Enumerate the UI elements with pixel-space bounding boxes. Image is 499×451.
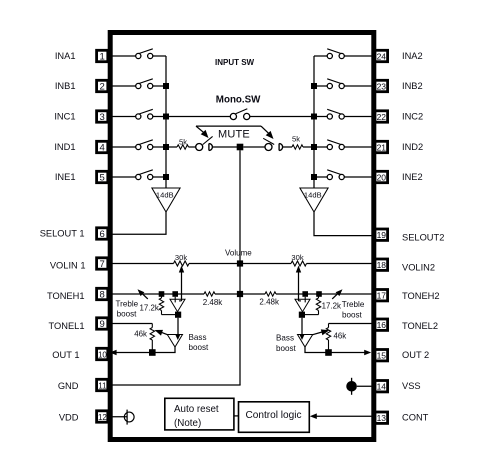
svg-text:2: 2 xyxy=(100,81,105,92)
svg-text:24: 24 xyxy=(377,51,387,61)
svg-text:10: 10 xyxy=(98,350,107,359)
wire stub + input treble left xyxy=(174,297,176,303)
wire 14dB left output to pin6 xyxy=(108,212,166,234)
junction left bus row3 xyxy=(163,114,169,120)
svg-text:boost: boost xyxy=(189,343,210,352)
svg-text:Mono.SW: Mono.SW xyxy=(216,95,261,106)
svg-text:2.48k: 2.48k xyxy=(259,298,280,307)
junction 46k bottom right xyxy=(325,349,332,356)
svg-text:TONEH1: TONEH1 xyxy=(47,291,85,301)
junction right bus row22 xyxy=(311,114,317,120)
wire mute switch left to center xyxy=(212,146,237,148)
svg-text:46k: 46k xyxy=(334,331,347,340)
svg-text:TONEH2: TONEH2 xyxy=(402,291,440,301)
svg-text:INE1: INE1 xyxy=(55,172,76,182)
arrow to pin15 xyxy=(364,350,371,355)
wire 5k to mute switch left xyxy=(189,146,196,148)
svg-text:7: 7 xyxy=(100,259,105,270)
switch Mono.SW xyxy=(166,109,314,120)
svg-text:23: 23 xyxy=(377,81,387,91)
svg-text:OUT 2: OUT 2 xyxy=(402,350,429,360)
wire Auto reset to Control logic xyxy=(234,415,239,417)
wire 17.2k to treble output right xyxy=(304,314,319,316)
junction left bus row5 xyxy=(163,174,169,180)
wire pin22 to switch SW-C2 xyxy=(344,116,373,118)
wire pin9 to 46k left xyxy=(108,323,152,325)
svg-text:11: 11 xyxy=(98,381,107,390)
svg-text:INA2: INA2 xyxy=(402,51,423,61)
svg-text:22: 22 xyxy=(377,112,387,122)
pin 3 box xyxy=(97,111,108,122)
wire SW-A1 to left bus xyxy=(153,55,166,57)
wire pin20 to switch SW-E2 xyxy=(344,176,373,178)
svg-text:14dB: 14dB xyxy=(156,190,174,199)
pin 4 box xyxy=(97,141,108,152)
svg-text:4: 4 xyxy=(100,142,105,153)
svg-text:INB1: INB1 xyxy=(55,81,76,91)
svg-text:17.2k: 17.2k xyxy=(322,302,341,311)
pin 23 box xyxy=(375,80,388,91)
wire center to mute switch right xyxy=(243,146,265,148)
wire treble output down left xyxy=(177,318,179,334)
wire pin8 tone row left xyxy=(108,293,204,295)
svg-text:30k: 30k xyxy=(291,253,303,262)
pin 10 box xyxy=(97,348,108,359)
bass wiper arrow left xyxy=(161,332,168,335)
svg-text:14dB: 14dB xyxy=(304,190,322,199)
junction tone row left A xyxy=(159,291,165,297)
resistor 30k right xyxy=(291,261,307,266)
svg-text:boost: boost xyxy=(342,310,363,319)
svg-text:17: 17 xyxy=(377,291,387,301)
wire volume row to pin18 xyxy=(307,263,374,265)
IC body U1 xyxy=(110,33,374,440)
svg-text:5k: 5k xyxy=(292,134,300,143)
wire SW-C2 to right bus xyxy=(314,116,327,118)
pin 9 box xyxy=(97,318,108,329)
pin 12 box xyxy=(97,411,108,422)
junction left bus row4 xyxy=(163,144,169,150)
resistor 17.2k right xyxy=(318,294,320,298)
svg-text:15: 15 xyxy=(377,351,387,361)
wire volume row middle xyxy=(189,263,291,265)
svg-text:18: 18 xyxy=(377,260,387,270)
volume wiper arrow right xyxy=(298,268,300,301)
wire pin21 to switch SW-D2 xyxy=(344,146,373,148)
pin 21 box xyxy=(375,141,388,152)
pin 18 box xyxy=(375,259,388,270)
resistor 2.48k right xyxy=(265,292,276,296)
volume wiper arrow left xyxy=(181,268,183,301)
arrow to pin10 xyxy=(110,350,117,355)
svg-text:17.2k: 17.2k xyxy=(139,304,158,313)
svg-text:SELOUT 1: SELOUT 1 xyxy=(40,229,85,239)
block Auto reset xyxy=(165,398,234,430)
resistor 5k right xyxy=(292,145,303,149)
svg-text:GND: GND xyxy=(58,381,79,391)
resistor 46k left xyxy=(151,324,153,328)
junction right bus row23 xyxy=(311,83,317,89)
switch MUTE left xyxy=(196,144,203,151)
switch SW-C2 xyxy=(339,114,344,119)
wire pin13 to Control logic xyxy=(314,415,374,417)
wire 5k right to right bus xyxy=(303,146,314,148)
treble wiper arrow right xyxy=(332,292,340,299)
svg-text:21: 21 xyxy=(377,142,387,152)
switch SW-B1 xyxy=(136,83,141,88)
pin 16 box xyxy=(375,319,388,330)
svg-text:VSS: VSS xyxy=(402,381,421,391)
switch SW-C1 xyxy=(136,114,141,119)
wire stub + input treble right xyxy=(304,297,306,303)
pin 24 box xyxy=(375,50,388,61)
svg-text:INC2: INC2 xyxy=(402,112,423,122)
wire pin7 volume row left xyxy=(108,263,173,265)
wire pin24 to switch SW-A2 xyxy=(344,55,373,57)
junction tone center xyxy=(237,291,243,297)
pin 8 box xyxy=(97,288,108,299)
svg-text:MUTE: MUTE xyxy=(218,129,250,141)
switch SW-E2 xyxy=(339,174,344,179)
svg-text:Auto reset: Auto reset xyxy=(174,404,219,415)
wire pin12 to VDD symbol xyxy=(108,416,127,418)
svg-text:INC1: INC1 xyxy=(54,112,75,122)
svg-text:INB2: INB2 xyxy=(402,81,423,91)
svg-text:boost: boost xyxy=(276,344,297,353)
wire bass output left xyxy=(174,347,176,353)
svg-text:16: 16 xyxy=(377,320,387,330)
pin 6 box xyxy=(97,228,108,239)
junction right bus row20 xyxy=(311,174,317,180)
wire pin3 to switch SW-C1 xyxy=(108,116,135,118)
op-amp bass right xyxy=(298,335,313,348)
op-amp 14dB right xyxy=(300,188,328,212)
resistor 46k right xyxy=(328,324,330,328)
wire pin23 to switch SW-B2 xyxy=(344,85,373,87)
wire center vertical bus xyxy=(239,150,241,385)
junction tone row left B xyxy=(172,291,178,297)
resistor 2.48k left xyxy=(204,292,215,296)
svg-text:13: 13 xyxy=(377,413,387,423)
svg-text:9: 9 xyxy=(100,319,105,330)
junction tone row right A xyxy=(316,291,322,297)
svg-text:5k: 5k xyxy=(179,137,187,146)
svg-text:19: 19 xyxy=(377,230,387,240)
junction treble output right xyxy=(299,312,305,318)
switch SW-A1 xyxy=(136,53,141,58)
wire pin11 GND to center bus xyxy=(108,384,240,386)
junction 46k bottom left xyxy=(149,349,156,356)
pin 15 box xyxy=(375,350,388,361)
wire mute switch right to 5k right xyxy=(283,146,292,148)
wire pin4 to switch SW-D1 xyxy=(108,146,135,148)
junction treble output left xyxy=(175,312,181,318)
wire 14dB right output to pin19 xyxy=(314,212,374,236)
junction volume center xyxy=(237,260,243,266)
svg-text:12: 12 xyxy=(98,413,107,422)
pin 7 box xyxy=(97,258,108,269)
wire tone row to pin17 xyxy=(276,293,374,295)
svg-text:INE2: INE2 xyxy=(402,172,423,182)
pin 5 box xyxy=(97,171,108,182)
svg-text:INPUT SW: INPUT SW xyxy=(215,58,255,67)
svg-text:30k: 30k xyxy=(175,253,187,262)
svg-text:Treble: Treble xyxy=(116,300,139,309)
wire SW-E2 to right bus xyxy=(314,176,327,178)
switch MUTE right xyxy=(265,144,272,151)
pin 1 box xyxy=(97,50,108,61)
wire SW-C1 to left bus xyxy=(153,116,166,118)
op-amp bass left xyxy=(167,335,182,348)
switch SW-D2 xyxy=(339,144,344,149)
resistor 17.2k left xyxy=(161,294,163,298)
wire pin5 to switch SW-E1 xyxy=(108,176,135,178)
svg-text:SELOUT2: SELOUT2 xyxy=(402,233,444,243)
switch SW-E1 xyxy=(136,174,141,179)
svg-text:(Note): (Note) xyxy=(174,418,201,429)
MUTE arrow right xyxy=(261,126,270,134)
svg-text:6: 6 xyxy=(100,229,105,240)
junction tone row right B xyxy=(302,291,308,297)
junction mute center xyxy=(237,144,244,151)
switch SW-D1 xyxy=(136,144,141,149)
op-amp treble right xyxy=(295,299,310,311)
svg-text:46k: 46k xyxy=(134,329,147,338)
svg-text:IND2: IND2 xyxy=(402,142,423,152)
resistor 5k left xyxy=(177,145,189,149)
svg-text:boost: boost xyxy=(117,309,138,318)
wire 17.2k to treble output left xyxy=(162,314,177,316)
svg-text:VDD: VDD xyxy=(59,412,79,422)
wire SW-B2 to right bus xyxy=(314,85,327,87)
wire right input bus xyxy=(313,56,315,188)
junction right bus row21 xyxy=(311,144,317,150)
wire pin1 to switch SW-A1 xyxy=(108,55,135,57)
svg-text:Bass: Bass xyxy=(189,333,207,342)
svg-text:5: 5 xyxy=(100,172,105,183)
pin 22 box xyxy=(375,111,388,122)
wire SW-D1 to left bus xyxy=(153,146,166,148)
svg-text:IND1: IND1 xyxy=(54,142,75,152)
wire bass output right xyxy=(304,347,306,353)
wire tone row middle xyxy=(215,293,265,295)
wire SW-E1 to left bus xyxy=(153,176,166,178)
resistor 30k left xyxy=(174,261,190,266)
MUTE arrow left xyxy=(196,126,205,133)
block Control logic xyxy=(239,402,310,433)
wire SW-B1 to left bus xyxy=(153,85,166,87)
wire left input bus xyxy=(165,56,167,188)
svg-text:2.48k: 2.48k xyxy=(203,298,224,307)
svg-text:TONEL1: TONEL1 xyxy=(49,321,85,331)
svg-text:TONEL2: TONEL2 xyxy=(402,321,438,331)
pin 17 box xyxy=(375,290,388,301)
svg-text:20: 20 xyxy=(377,172,387,182)
svg-text:3: 3 xyxy=(100,112,105,123)
svg-text:Control logic: Control logic xyxy=(245,410,301,421)
VSS supply symbol xyxy=(346,381,357,392)
pin 20 box xyxy=(375,171,388,182)
svg-text:1: 1 xyxy=(100,51,105,62)
op-amp treble left xyxy=(170,299,185,311)
svg-text:Volume: Volume xyxy=(225,249,252,258)
svg-text:CONT: CONT xyxy=(402,412,429,422)
pin 13 box xyxy=(375,412,388,423)
treble wiper arrow left xyxy=(140,292,148,299)
wire SW-A2 to right bus xyxy=(314,55,327,57)
wire VSS to pin14 xyxy=(357,385,374,387)
pin 11 box xyxy=(97,379,108,390)
wire mute row left xyxy=(166,146,177,148)
wire pin2 to switch SW-B1 xyxy=(108,85,135,87)
switch SW-B2 xyxy=(339,83,344,88)
switch SW-A2 xyxy=(339,53,344,58)
svg-text:VOLIN2: VOLIN2 xyxy=(402,263,435,273)
VDD supply symbol xyxy=(124,412,134,422)
svg-text:Treble: Treble xyxy=(342,300,365,309)
wire treble output down right xyxy=(301,318,303,334)
wire SW-D2 to right bus xyxy=(314,146,327,148)
svg-text:14: 14 xyxy=(377,382,387,392)
wire pin16 to 46k right xyxy=(329,323,374,325)
svg-text:8: 8 xyxy=(100,289,105,300)
pin 14 box xyxy=(375,381,388,392)
bass wiper arrow right xyxy=(312,332,322,335)
MUTE bar xyxy=(196,125,261,127)
pin 19 box xyxy=(375,229,388,240)
svg-text:VOLIN 1: VOLIN 1 xyxy=(50,261,86,271)
svg-text:INA1: INA1 xyxy=(55,51,76,61)
junction left bus row2 xyxy=(163,83,169,89)
pin 2 box xyxy=(97,80,108,91)
svg-text:Bass: Bass xyxy=(276,334,294,343)
svg-text:OUT 1: OUT 1 xyxy=(52,350,79,360)
op-amp 14dB left xyxy=(152,188,180,212)
